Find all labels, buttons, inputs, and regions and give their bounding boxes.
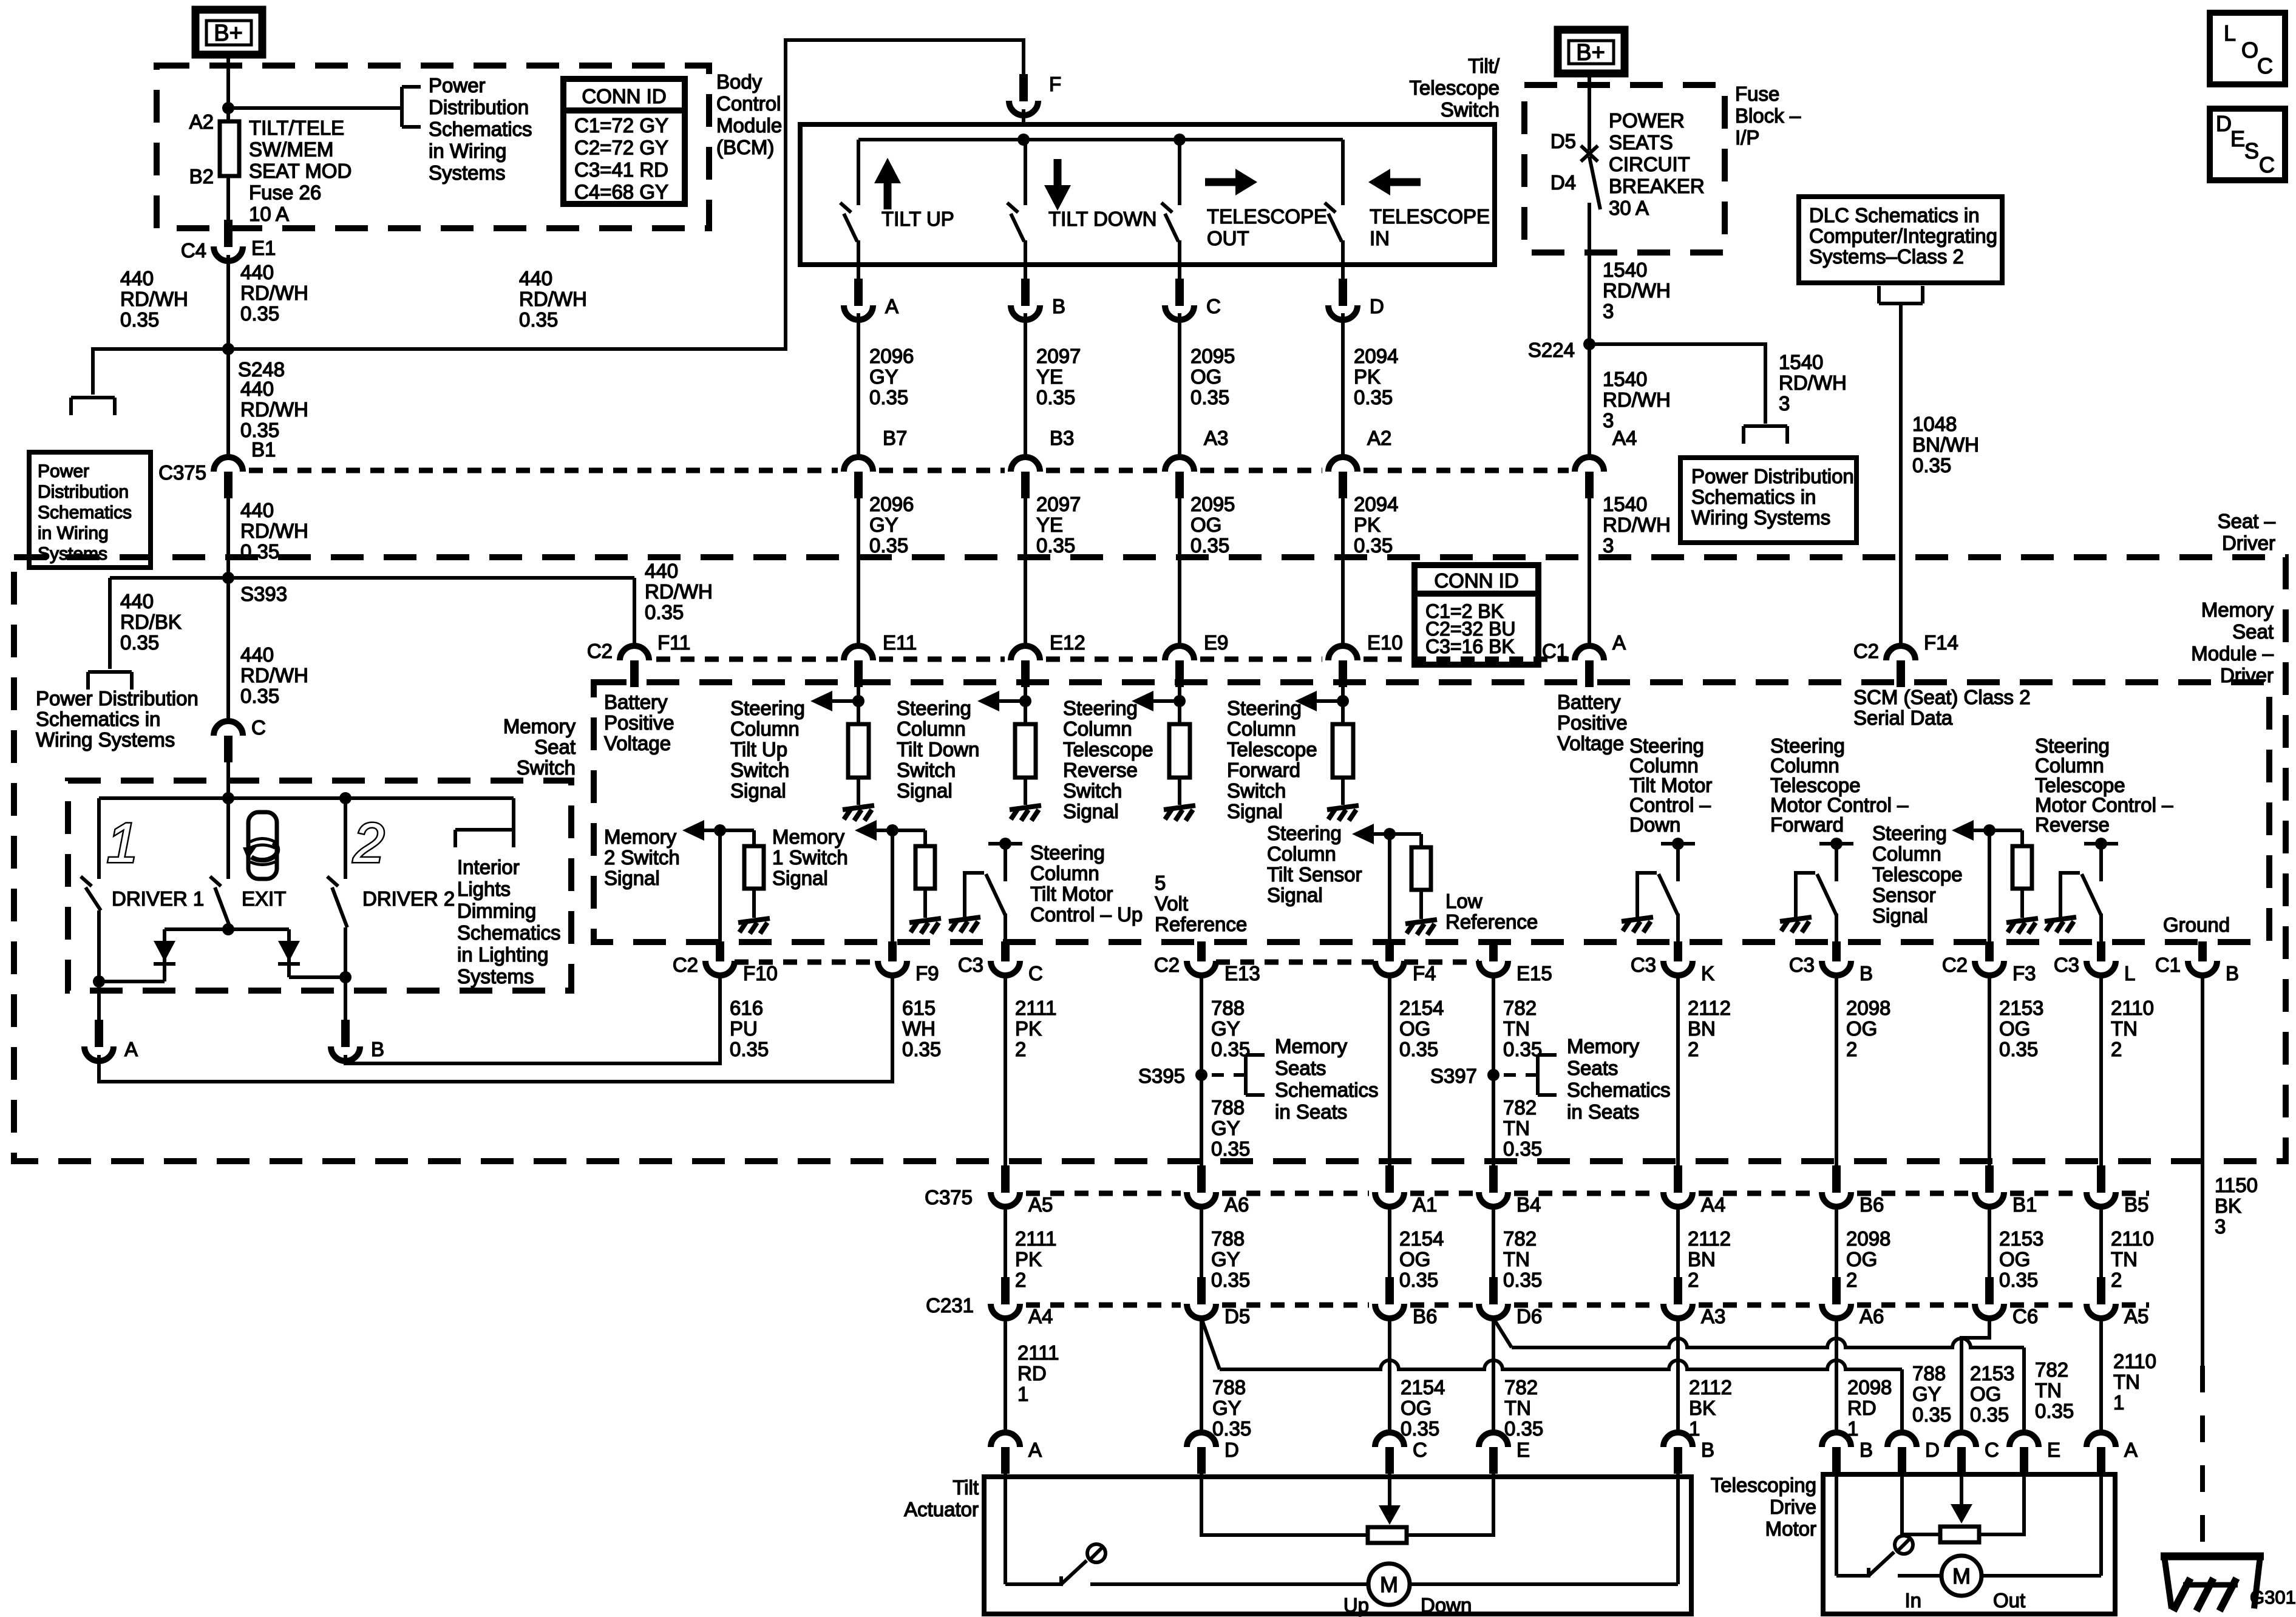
svg-text:2: 2 xyxy=(2111,1269,2122,1291)
svg-text:2111: 2111 xyxy=(1015,1227,1057,1250)
svg-text:Actuator: Actuator xyxy=(904,1498,979,1520)
svg-text:0.35: 0.35 xyxy=(1399,1038,1438,1060)
reference fork power distribution left xyxy=(71,396,115,399)
svg-text:1: 1 xyxy=(1017,1383,1028,1405)
svg-text:TN: TN xyxy=(2035,1379,2062,1402)
svg-text:0.35: 0.35 xyxy=(120,631,159,654)
svg-text:Column: Column xyxy=(1872,842,1941,865)
reference fork power distribution right xyxy=(1744,424,1787,428)
svg-text:Switch: Switch xyxy=(1441,98,1500,121)
svg-text:1540: 1540 xyxy=(1603,259,1647,281)
svg-text:EXIT: EXIT xyxy=(242,887,286,910)
CONN ID table (module) xyxy=(1415,565,1538,665)
ground E12 xyxy=(1024,778,1027,805)
memory 2 switch signal internal xyxy=(714,824,726,836)
connector C375 row line xyxy=(249,468,838,473)
signal E12 internal wire xyxy=(1024,686,1027,724)
svg-text:3: 3 xyxy=(2215,1215,2226,1238)
svg-text:Body: Body xyxy=(716,70,763,93)
svg-text:A: A xyxy=(124,1038,138,1060)
svg-text:Tilt Motor: Tilt Motor xyxy=(1030,883,1113,905)
svg-text:B1: B1 xyxy=(251,438,276,461)
connector module bottom pin E13 xyxy=(1197,941,1206,961)
svg-text:Block –: Block – xyxy=(1735,104,1801,127)
svg-text:PK: PK xyxy=(1015,1248,1042,1270)
svg-text:C3=41 RD: C3=41 RD xyxy=(574,158,668,181)
svg-text:RD/WH: RD/WH xyxy=(120,288,188,310)
connector C375 pin A5 xyxy=(1001,1165,1010,1193)
svg-text:GY: GY xyxy=(1211,1017,1240,1040)
svg-text:Down: Down xyxy=(1629,813,1680,836)
svg-text:C: C xyxy=(1985,1439,1999,1461)
svg-text:RD/WH: RD/WH xyxy=(1603,514,1671,536)
svg-text:Column: Column xyxy=(1030,862,1099,884)
wire to power distribution reference xyxy=(228,106,402,110)
wire S224 down to A4 xyxy=(1588,344,1591,457)
wire 1048 BN/WH serial data xyxy=(1899,303,1903,646)
svg-text:A2: A2 xyxy=(189,110,214,133)
connector C1 pin A xyxy=(1575,646,1604,660)
svg-text:TILT/TELE: TILT/TELE xyxy=(249,117,344,139)
wire 2154 OG to C375 xyxy=(1388,975,1391,1165)
svg-text:TELESCOPE: TELESCOPE xyxy=(1370,205,1490,228)
svg-text:788: 788 xyxy=(1211,1227,1245,1250)
connector module bottom pin B xyxy=(1832,941,1841,961)
svg-text:TILT UP: TILT UP xyxy=(881,208,954,230)
resistor E9 xyxy=(1169,724,1190,778)
wire 2097 into seat xyxy=(1024,497,1027,646)
connector tilt actuator pin C xyxy=(1375,1432,1404,1447)
svg-text:B: B xyxy=(1701,1439,1714,1461)
svg-text:2154: 2154 xyxy=(1399,997,1444,1019)
svg-text:C2: C2 xyxy=(587,640,613,662)
svg-text:Reference: Reference xyxy=(1155,913,1247,935)
svg-text:G301: G301 xyxy=(2250,1587,2296,1608)
connector C231 pin C6 xyxy=(1985,1277,1994,1304)
connector telescoping pin B xyxy=(1822,1432,1851,1447)
Tilt/Telescope Switch box xyxy=(800,124,1495,265)
svg-text:B+: B+ xyxy=(1576,40,1605,66)
svg-text:2110: 2110 xyxy=(2111,1227,2154,1250)
svg-text:2 Switch: 2 Switch xyxy=(604,846,680,869)
svg-text:0.35: 0.35 xyxy=(1190,534,1229,557)
svg-text:E11: E11 xyxy=(883,631,917,654)
svg-text:Up: Up xyxy=(1343,1594,1369,1616)
svg-text:D: D xyxy=(1224,1439,1239,1461)
svg-text:A6: A6 xyxy=(1860,1305,1884,1327)
splice S393 xyxy=(222,572,234,584)
svg-text:Tilt Motor: Tilt Motor xyxy=(1629,774,1712,796)
svg-text:DRIVER 1: DRIVER 1 xyxy=(112,887,204,910)
svg-text:Reverse: Reverse xyxy=(1063,759,1138,781)
svg-text:2112: 2112 xyxy=(1689,1376,1732,1398)
svg-text:2094: 2094 xyxy=(1354,493,1398,515)
svg-text:Signal: Signal xyxy=(897,779,953,802)
svg-text:Memory: Memory xyxy=(1567,1035,1640,1057)
battery feed B+ (left) xyxy=(195,10,262,55)
wire 2154 OG to tilt actuator C xyxy=(1388,1318,1391,1432)
memory seat switch bus xyxy=(99,796,514,800)
svg-text:C4: C4 xyxy=(181,239,206,262)
svg-text:2096: 2096 xyxy=(869,493,914,515)
wire F into switch box xyxy=(1022,109,1025,125)
svg-text:(BCM): (BCM) xyxy=(716,136,774,158)
svg-text:Tilt: Tilt xyxy=(953,1476,979,1499)
svg-text:0.35: 0.35 xyxy=(1354,534,1393,557)
svg-text:SW/MEM: SW/MEM xyxy=(249,138,333,161)
svg-text:0.35: 0.35 xyxy=(869,386,908,408)
svg-text:Signal: Signal xyxy=(730,779,786,802)
svg-text:BN: BN xyxy=(1688,1017,1716,1040)
wire switch output A xyxy=(857,265,860,280)
svg-text:F4: F4 xyxy=(1413,962,1436,985)
svg-text:2112: 2112 xyxy=(1688,997,1731,1019)
connector C375 pin A2 xyxy=(1328,457,1357,472)
svg-text:Telescope: Telescope xyxy=(2035,774,2125,796)
svg-text:A4: A4 xyxy=(1028,1305,1053,1327)
svg-text:E: E xyxy=(2047,1439,2060,1461)
wire switch output C xyxy=(1178,265,1181,280)
svg-text:440: 440 xyxy=(240,261,274,283)
diode memory 2 side xyxy=(287,929,291,977)
svg-text:2111: 2111 xyxy=(1017,1341,1059,1364)
svg-text:F14: F14 xyxy=(1924,631,1958,654)
connector switch pin D xyxy=(1339,279,1347,306)
svg-text:PK: PK xyxy=(1354,514,1381,536)
svg-text:Signal: Signal xyxy=(1227,800,1283,822)
wire 782 TN branch D6 to telescoping E xyxy=(1493,1318,1512,1347)
svg-text:Steering: Steering xyxy=(1872,822,1947,844)
svg-text:Power: Power xyxy=(429,74,486,97)
wire A to F9 xyxy=(99,976,892,1082)
connector switch pin A xyxy=(854,279,863,306)
svg-text:Voltage: Voltage xyxy=(604,732,671,754)
wire B to F10 xyxy=(345,976,720,1063)
svg-text:OG: OG xyxy=(1399,1017,1430,1040)
Body Control Module (BCM) dashed box xyxy=(157,66,709,228)
svg-text:Telescope: Telescope xyxy=(1063,738,1153,761)
svg-text:C2=72 GY: C2=72 GY xyxy=(574,137,668,159)
connector telescoping pin A xyxy=(2087,1432,2116,1447)
svg-text:OG: OG xyxy=(1846,1248,1877,1270)
svg-text:F10: F10 xyxy=(743,962,778,985)
svg-text:TN: TN xyxy=(1503,1248,1530,1270)
svg-text:Schematics: Schematics xyxy=(38,503,132,523)
svg-text:TN: TN xyxy=(2111,1017,2138,1040)
svg-text:30 A: 30 A xyxy=(1609,197,1649,219)
svg-text:CONN ID: CONN ID xyxy=(582,85,666,107)
wire exit to diodes xyxy=(165,927,289,931)
svg-text:Reverse: Reverse xyxy=(2035,813,2110,836)
svg-text:Column: Column xyxy=(1063,717,1132,740)
wire 2153 OG C6 to telescoping C xyxy=(1961,1318,1989,1432)
svg-text:L: L xyxy=(2124,962,2135,985)
svg-text:D4: D4 xyxy=(1550,171,1576,194)
wire 2110 TN to C375 xyxy=(2099,975,2103,1165)
svg-text:2154: 2154 xyxy=(1399,1227,1444,1250)
connector switch pin C xyxy=(1175,279,1184,306)
wire 2153 to C231 xyxy=(1988,1207,1991,1278)
svg-text:in Seats: in Seats xyxy=(1567,1100,1639,1123)
svg-text:0.35: 0.35 xyxy=(645,601,684,623)
CONN ID table (BCM) xyxy=(563,79,685,204)
svg-text:C375: C375 xyxy=(158,461,206,484)
wire 2111 RD to tilt actuator A xyxy=(1004,1318,1007,1432)
bus inside switch xyxy=(858,138,1343,141)
switch TELESCOPE OUT xyxy=(1178,140,1181,205)
svg-text:CONN ID: CONN ID xyxy=(1434,569,1518,592)
connector tilt actuator pin A xyxy=(991,1432,1020,1447)
svg-text:in Lighting: in Lighting xyxy=(457,943,548,966)
svg-text:Signal: Signal xyxy=(1267,884,1323,906)
switch steering column telescope motor control - forward xyxy=(1819,842,1853,846)
svg-text:2111: 2111 xyxy=(1015,997,1057,1019)
switch steering column tilt motor control - down xyxy=(1661,842,1695,846)
svg-text:Battery: Battery xyxy=(1557,691,1621,713)
connector C375 pin A3 xyxy=(1165,457,1194,472)
svg-text:B4: B4 xyxy=(1517,1193,1541,1216)
wire diode2 to driver2 xyxy=(289,975,345,979)
connector module pin E9 xyxy=(1165,646,1194,660)
wire 2154 to C231 xyxy=(1388,1207,1391,1278)
resistor E11 xyxy=(848,724,869,778)
switch TILT UP xyxy=(857,140,860,205)
svg-text:Power Distribution: Power Distribution xyxy=(36,687,199,710)
switch steering column telescope motor control - reverse xyxy=(2084,842,2118,846)
signal E9 internal wire xyxy=(1178,686,1181,724)
svg-text:788: 788 xyxy=(1212,1376,1246,1398)
svg-text:0.35: 0.35 xyxy=(1504,1417,1543,1440)
svg-text:782: 782 xyxy=(2035,1358,2068,1381)
connector F tilt/telescope switch xyxy=(1019,74,1028,101)
svg-text:E13: E13 xyxy=(1224,962,1260,985)
switch steering column tilt motor control - up xyxy=(988,842,1022,846)
Memory Seat Switch dashed box xyxy=(68,781,571,991)
svg-text:Tilt Down: Tilt Down xyxy=(897,738,979,761)
wire ground 1150 BK xyxy=(2201,975,2204,1366)
wire switch output B xyxy=(1024,265,1027,280)
svg-text:Forward: Forward xyxy=(1227,759,1300,781)
svg-text:Interior: Interior xyxy=(457,856,520,878)
svg-text:YE: YE xyxy=(1036,514,1063,536)
svg-text:440: 440 xyxy=(120,590,154,612)
svg-text:D5: D5 xyxy=(1224,1305,1250,1327)
svg-text:Column: Column xyxy=(1770,754,1839,777)
wire 2112 to C231 xyxy=(1676,1207,1680,1278)
svg-text:2: 2 xyxy=(1015,1269,1026,1291)
svg-text:C: C xyxy=(1413,1439,1427,1461)
wire 440 RD/WH down to S248 xyxy=(226,255,230,349)
connector module bottom pin F3 xyxy=(1985,941,1994,961)
telescoping sensor wiper arrow from C xyxy=(1960,1473,1963,1505)
svg-text:1 Switch: 1 Switch xyxy=(772,846,848,869)
connector C375 pin A6 xyxy=(1197,1165,1206,1193)
svg-text:RD/WH: RD/WH xyxy=(645,580,713,603)
Seat - Driver dashed box xyxy=(14,557,2286,1161)
svg-text:C1=72 GY: C1=72 GY xyxy=(574,114,668,137)
svg-text:Seats: Seats xyxy=(1567,1057,1618,1079)
svg-text:OG: OG xyxy=(1190,365,1221,388)
svg-text:2153: 2153 xyxy=(1999,997,2043,1019)
svg-text:RD/WH: RD/WH xyxy=(240,520,308,542)
tilt sensor wiper arrow from C xyxy=(1388,1473,1391,1507)
svg-text:788: 788 xyxy=(1211,1096,1245,1119)
connector module bottom pin K xyxy=(1674,941,1682,961)
svg-text:A2: A2 xyxy=(1367,427,1391,449)
svg-text:5: 5 xyxy=(1155,872,1166,894)
battery feed B+ (right) xyxy=(1558,30,1625,73)
svg-text:0.35: 0.35 xyxy=(519,308,558,331)
ground G301 symbol xyxy=(2161,1553,2264,1561)
svg-text:A6: A6 xyxy=(1224,1193,1249,1216)
svg-text:440: 440 xyxy=(240,378,274,400)
Fuse Block - I/P dashed box xyxy=(1524,85,1725,253)
svg-text:2154: 2154 xyxy=(1401,1376,1445,1398)
svg-text:D6: D6 xyxy=(1517,1305,1542,1327)
connector row module bottom line xyxy=(735,960,878,965)
svg-text:C: C xyxy=(251,716,266,739)
svg-text:788: 788 xyxy=(1211,997,1245,1019)
svg-text:0.35: 0.35 xyxy=(1999,1269,2038,1291)
svg-text:2098: 2098 xyxy=(1846,1227,1890,1250)
connector C375 pin B5 xyxy=(2097,1165,2105,1193)
node bus F xyxy=(1017,134,1030,146)
switch TELESCOPE IN xyxy=(1341,140,1345,205)
svg-text:B6: B6 xyxy=(1413,1305,1437,1327)
svg-text:10 A: 10 A xyxy=(249,203,289,225)
svg-text:Column: Column xyxy=(1227,717,1296,740)
connector tilt actuator pin B xyxy=(1663,1432,1693,1447)
wire 2094 into seat xyxy=(1341,497,1345,646)
svg-text:2110: 2110 xyxy=(2111,997,2154,1019)
svg-text:S395: S395 xyxy=(1138,1065,1185,1087)
svg-text:S393: S393 xyxy=(240,583,287,605)
svg-text:Telescope: Telescope xyxy=(1409,76,1500,99)
svg-text:Steering: Steering xyxy=(730,697,805,719)
svg-text:E: E xyxy=(2230,126,2245,151)
svg-text:Steering: Steering xyxy=(1030,841,1105,864)
connector memory switch pin B xyxy=(341,1020,350,1047)
svg-text:Motor Control –: Motor Control – xyxy=(1770,794,1909,816)
svg-text:S224: S224 xyxy=(1528,339,1575,361)
connector tilt actuator pin D xyxy=(1187,1432,1216,1447)
svg-text:0.35: 0.35 xyxy=(1212,1417,1251,1440)
car exit icon xyxy=(248,812,277,879)
svg-text:2098: 2098 xyxy=(1846,997,1890,1019)
svg-text:2097: 2097 xyxy=(1036,345,1081,367)
svg-text:Distribution: Distribution xyxy=(429,96,529,118)
svg-text:Memory: Memory xyxy=(2201,598,2274,621)
svg-text:C1: C1 xyxy=(2155,954,2181,976)
svg-text:616: 616 xyxy=(730,997,763,1019)
svg-text:0.35: 0.35 xyxy=(120,308,159,331)
svg-text:Schematics in: Schematics in xyxy=(36,708,160,730)
connector module bottom pin L xyxy=(2097,941,2105,961)
svg-text:1540: 1540 xyxy=(1603,368,1647,390)
svg-text:440: 440 xyxy=(519,267,552,290)
svg-text:SEATS: SEATS xyxy=(1609,131,1673,154)
svg-text:TN: TN xyxy=(1503,1117,1530,1139)
wire S224 branch right xyxy=(1589,344,1765,424)
connector module pin E12 xyxy=(1011,646,1040,660)
svg-text:Module: Module xyxy=(716,114,782,137)
wire 2095 OG to C375 xyxy=(1178,313,1181,457)
svg-text:Switch: Switch xyxy=(1227,779,1286,802)
svg-text:RD/WH: RD/WH xyxy=(519,288,587,310)
svg-text:Systems–Class 2: Systems–Class 2 xyxy=(1809,245,1964,268)
svg-text:1540: 1540 xyxy=(1603,493,1647,515)
connector C375 pin B6 xyxy=(1832,1165,1841,1193)
connector C375 pin B3 xyxy=(1011,457,1040,472)
splice S248 xyxy=(222,343,234,355)
svg-text:C375: C375 xyxy=(925,1186,973,1209)
svg-text:B: B xyxy=(2226,962,2239,985)
box Power Distribution Schematics in Wiring Systems (right) xyxy=(1680,458,1856,543)
svg-text:Memory: Memory xyxy=(1275,1035,1348,1057)
svg-text:BK: BK xyxy=(2215,1195,2241,1217)
svg-text:D: D xyxy=(1925,1439,1940,1461)
svg-text:PK: PK xyxy=(1015,1017,1042,1040)
tilt actuator position sensor xyxy=(1201,1473,1368,1535)
svg-text:A: A xyxy=(1028,1439,1042,1461)
svg-text:0.35: 0.35 xyxy=(1354,386,1393,408)
svg-text:Power Distribution: Power Distribution xyxy=(1691,465,1854,487)
svg-text:OG: OG xyxy=(1999,1017,2030,1040)
svg-text:C4=68 GY: C4=68 GY xyxy=(574,181,668,203)
connector telescoping pin D xyxy=(1887,1432,1917,1447)
svg-text:Down: Down xyxy=(1421,1594,1472,1616)
wire 2110 TN to telescoping A xyxy=(2099,1318,2103,1432)
wire 2096 into seat xyxy=(857,497,860,646)
svg-text:2097: 2097 xyxy=(1036,493,1081,515)
svg-text:E9: E9 xyxy=(1204,631,1228,654)
wire 782 to C231 xyxy=(1492,1207,1495,1278)
svg-text:2153: 2153 xyxy=(1999,1227,2043,1250)
svg-text:B: B xyxy=(1860,962,1873,985)
wire C into switch xyxy=(226,761,230,798)
svg-text:Switch: Switch xyxy=(517,756,576,779)
svg-text:B: B xyxy=(1860,1439,1873,1461)
svg-text:Battery: Battery xyxy=(604,691,668,713)
signal E11 internal wire xyxy=(857,686,860,724)
motor M telescoping xyxy=(1941,1556,1982,1596)
svg-text:1150: 1150 xyxy=(2215,1174,2258,1196)
svg-text:B: B xyxy=(371,1038,384,1060)
svg-text:C1: C1 xyxy=(1542,640,1567,662)
svg-text:RD: RD xyxy=(1847,1397,1877,1419)
wire 2110 to C231 xyxy=(2099,1207,2103,1278)
svg-text:Signal: Signal xyxy=(1063,800,1119,822)
wire 2096 GY to C375 xyxy=(857,313,860,457)
svg-text:Schematics: Schematics xyxy=(1567,1079,1671,1101)
svg-text:Steering: Steering xyxy=(1629,734,1704,757)
svg-text:Memory: Memory xyxy=(503,715,576,737)
circuit breaker 30A contact X xyxy=(1581,146,1598,161)
svg-text:OG: OG xyxy=(1401,1397,1432,1419)
connector module pin E10 xyxy=(1328,646,1357,660)
svg-text:Column: Column xyxy=(730,717,800,740)
ground E11 xyxy=(857,778,860,805)
connector memory switch pin A xyxy=(95,1020,103,1047)
svg-text:Ground: Ground xyxy=(2163,914,2230,936)
svg-text:F11: F11 xyxy=(657,631,690,654)
svg-text:Positive: Positive xyxy=(604,711,674,734)
svg-text:Motor: Motor xyxy=(1765,1517,1816,1540)
diode memory 1 side xyxy=(163,929,166,981)
svg-text:440: 440 xyxy=(240,499,274,521)
connector C memory seat switch xyxy=(214,721,243,736)
svg-text:Tilt Up: Tilt Up xyxy=(730,738,787,761)
